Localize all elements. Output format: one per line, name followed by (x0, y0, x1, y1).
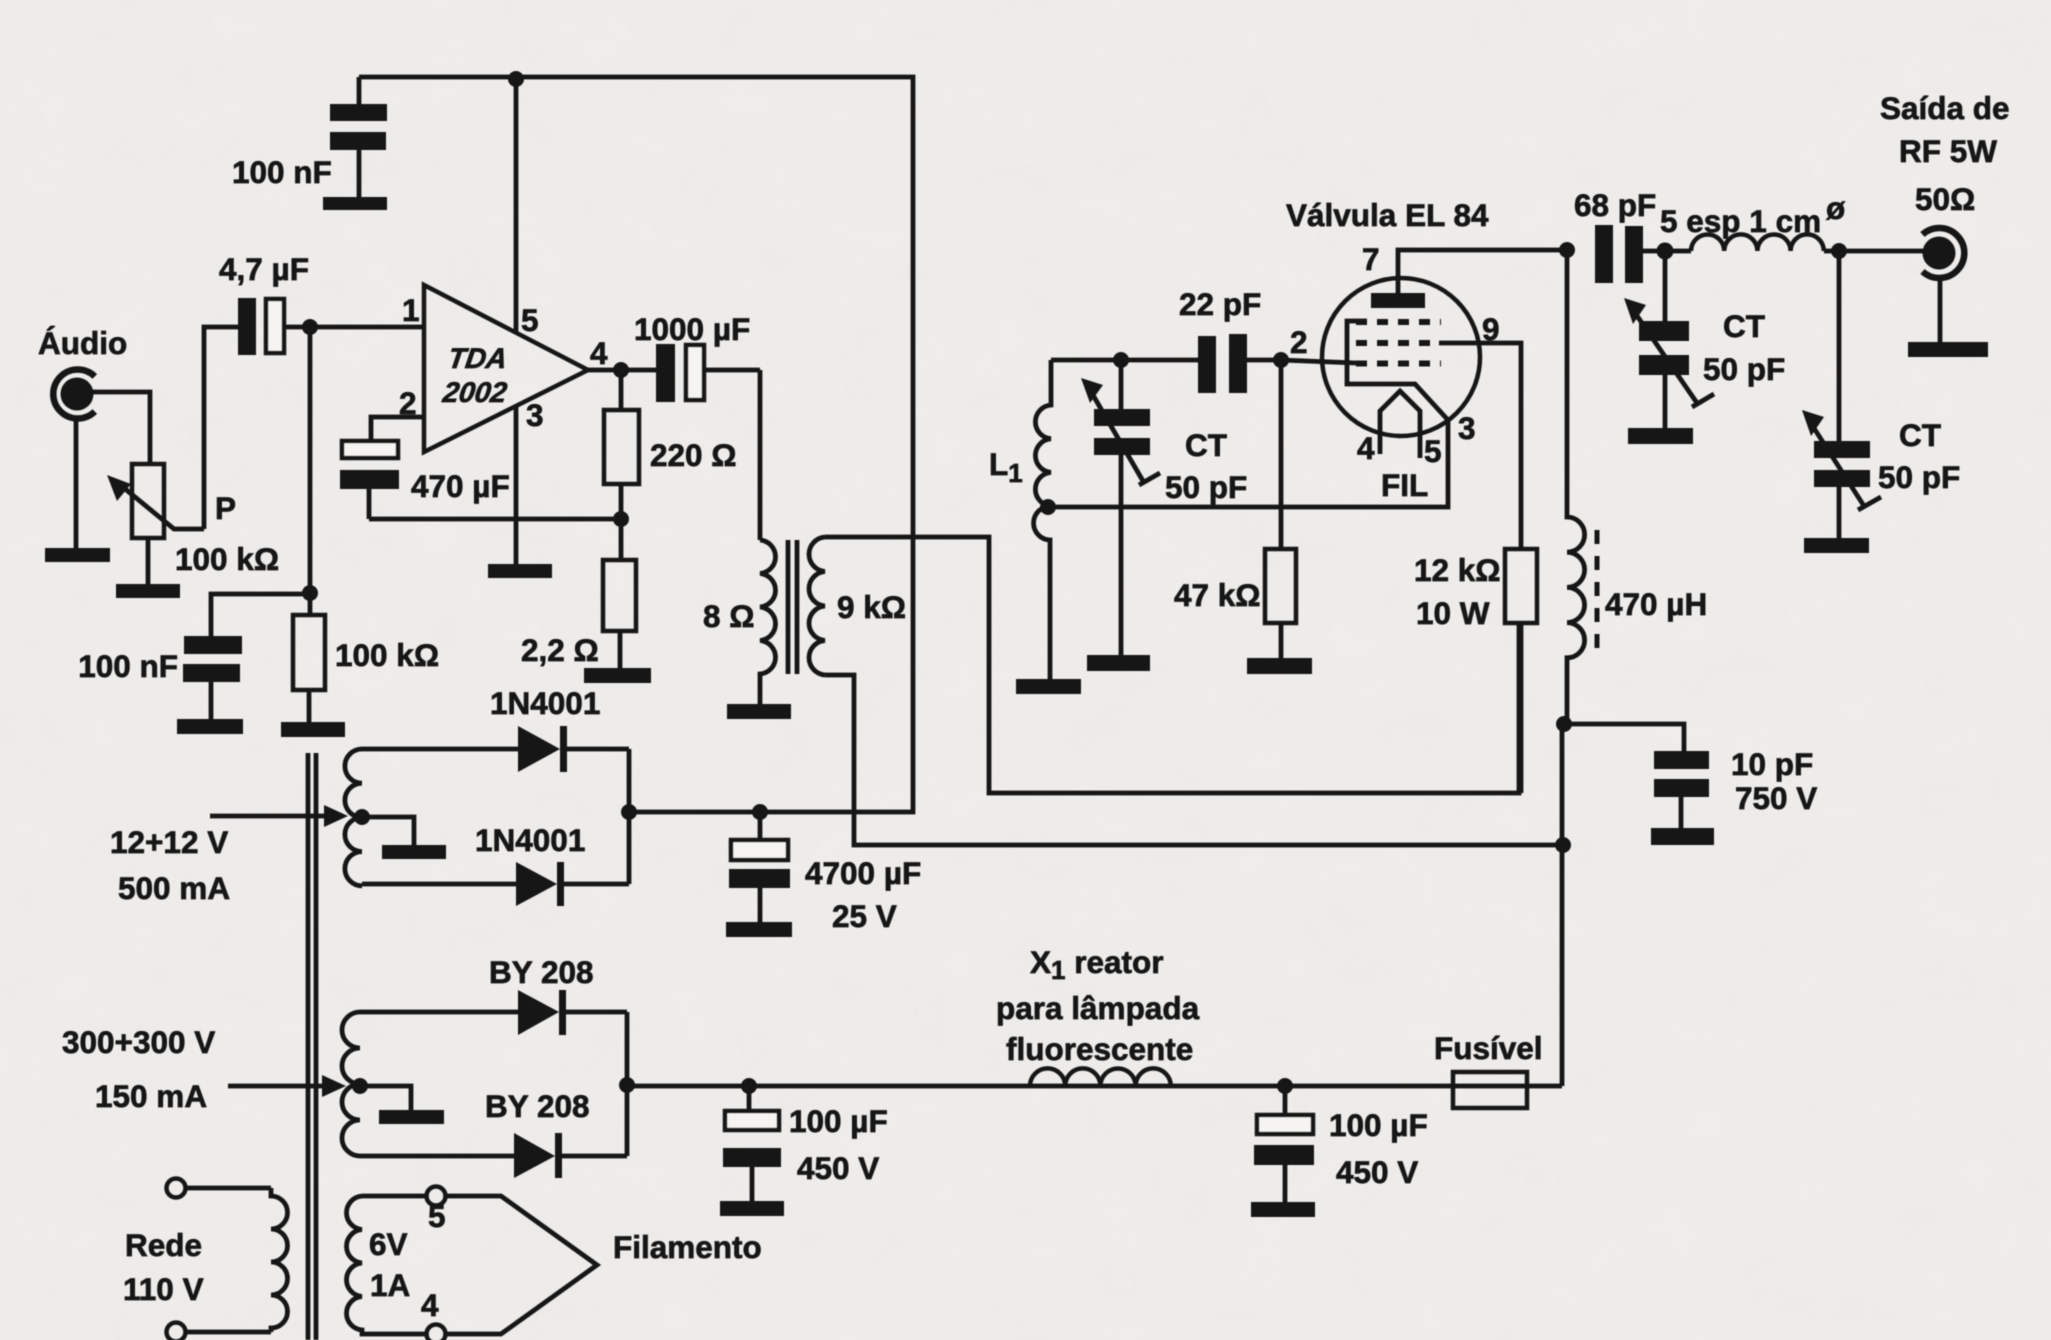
svg-text:470 µF: 470 µF (411, 468, 510, 504)
node CT1 top (1113, 352, 1129, 368)
wire cathode tap line (1048, 321, 1448, 507)
wire B+ line (627, 1084, 1453, 1089)
svg-text:110 V: 110 V (123, 1271, 204, 1307)
connector mains terminal bottom (167, 1323, 186, 1340)
label CT1 (1165, 427, 1247, 505)
value BY208 bottom (485, 1088, 590, 1124)
wire pin7 anode (1398, 250, 1567, 293)
pin 4 tube (1357, 430, 1375, 466)
label 5 esp 1 cm (1660, 190, 1846, 239)
svg-text:47 kΩ: 47 kΩ (1174, 577, 1261, 613)
value 47k (1174, 577, 1261, 613)
svg-text:6V: 6V (369, 1226, 408, 1262)
svg-text:300+300 V: 300+300 V (62, 1024, 215, 1060)
connector filament terminal 5 (427, 1187, 446, 1206)
wire 1000uF to T1 primary (758, 370, 763, 540)
svg-text:BY 208: BY 208 (485, 1088, 590, 1124)
svg-text:10 W: 10 W (1416, 595, 1490, 631)
ground 100uF second (1251, 1202, 1315, 1217)
value 8 ohm (703, 598, 755, 634)
potentiometer P 100k (132, 464, 164, 538)
svg-text:12+12 V: 12+12 V (110, 824, 228, 860)
grid g2 dashes (1356, 340, 1439, 346)
label CT3 (1878, 417, 1960, 495)
svg-text:68 pF: 68 pF (1574, 187, 1656, 223)
value 4700uF (805, 855, 921, 934)
svg-text:25 V: 25 V (832, 898, 897, 934)
wire jack to pot (90, 392, 150, 464)
wire input bias vertical (308, 327, 313, 615)
ground 47k (1247, 658, 1312, 674)
node 12V output (621, 804, 637, 820)
svg-text:150 mA: 150 mA (95, 1078, 207, 1114)
core T2 (308, 753, 316, 1340)
wire 300V center tap feed arrow (228, 1075, 346, 1097)
svg-text:1: 1 (402, 292, 420, 328)
label Saida de RF 5W 50ohm (1880, 90, 2010, 217)
wire wiper to C1 (204, 327, 238, 529)
svg-text:1N4001: 1N4001 (490, 685, 600, 721)
diode D2 1N4001 (516, 862, 629, 906)
node 300V center tap (352, 1078, 368, 1094)
resistor 100k input (293, 615, 325, 722)
capacitor 100uF 450V second (1254, 1086, 1314, 1202)
svg-text:3: 3 (526, 397, 544, 433)
capacitor 10pF 750V (1654, 751, 1709, 828)
value 470uF (411, 468, 510, 504)
svg-text:9: 9 (1482, 311, 1500, 347)
svg-text:4,7 µF: 4,7 µF (219, 251, 309, 287)
node 68pF out (1657, 243, 1674, 260)
wire 100nF to rail (357, 77, 362, 104)
value 100uF first (789, 1103, 888, 1186)
wire jack ground (74, 416, 79, 548)
coil L1 with tap (1034, 360, 1051, 679)
node anode junction (1559, 242, 1575, 258)
resistor 220 (604, 370, 639, 519)
diode D4 BY208 (514, 1133, 627, 1178)
ground 300V center tap (379, 1110, 444, 1124)
ground CT2 (1628, 428, 1693, 444)
svg-text:100 kΩ: 100 kΩ (175, 541, 279, 577)
svg-text:5 esp 1 cm: 5 esp 1 cm (1660, 203, 1821, 239)
tube V1 EL84 envelope (1322, 278, 1480, 436)
wire D1 D2 cathode column (627, 749, 632, 884)
svg-text:Válvula EL 84: Válvula EL 84 (1286, 197, 1489, 233)
svg-text:10 pF: 10 pF (1731, 746, 1813, 782)
svg-text:5: 5 (428, 1198, 446, 1234)
svg-text:4: 4 (421, 1287, 439, 1323)
wire pot ground (146, 538, 151, 584)
label FIL (1381, 467, 1428, 503)
wire 300V center tap ground (360, 1086, 411, 1110)
resistor 2,2 (603, 519, 636, 668)
svg-text:4: 4 (1357, 430, 1375, 466)
ground L1 (1016, 679, 1081, 694)
value 12k 10W (1414, 552, 1501, 631)
wire 300V top to D3 (360, 1010, 518, 1015)
diode D3 BY208 (518, 990, 627, 1035)
wire center tap to ground (362, 817, 414, 845)
svg-text:100 µF: 100 µF (1329, 1107, 1428, 1143)
value 220 (650, 437, 737, 473)
svg-text:Rede: Rede (125, 1227, 202, 1263)
value BY208 top (489, 954, 594, 990)
value 1N4001 top (490, 685, 600, 721)
ground CT3 (1804, 538, 1869, 553)
svg-text:CT: CT (1899, 417, 1941, 453)
wire 300V bottom to D4 (360, 1154, 514, 1159)
value 9k (837, 589, 906, 625)
node B+ to mod transformer (1555, 837, 1571, 853)
wire pin9 screen (1439, 343, 1521, 549)
label Audio (38, 325, 127, 361)
capacitor 100uF 450V first (723, 1086, 781, 1201)
svg-text:50 pF: 50 pF (1703, 351, 1785, 387)
resistor 47k grid leak (1265, 360, 1296, 658)
wire mains bottom (186, 1330, 271, 1335)
ground 100k input (281, 722, 345, 737)
label Filamento (613, 1229, 762, 1265)
capacitor 100nF input (183, 636, 242, 719)
svg-text:50 pF: 50 pF (1165, 469, 1247, 505)
node 100uF first (741, 1078, 757, 1094)
transformer T2 secondary 300+300V (342, 1012, 360, 1156)
ground 4700uF (726, 922, 792, 937)
svg-text:4700 µF: 4700 µF (805, 855, 921, 891)
wire to pin1 (310, 325, 424, 330)
pin 3 tube (1458, 410, 1476, 446)
svg-text:100 µF: 100 µF (789, 1103, 888, 1139)
wiper arrow P (107, 475, 204, 529)
svg-text:5: 5 (521, 302, 539, 338)
capacitor 1000uF output (656, 344, 760, 402)
wire RF output ground (1938, 277, 1943, 342)
node grid (1273, 352, 1289, 368)
svg-text:ø: ø (1826, 190, 1846, 226)
connector Audio input jack (53, 370, 95, 419)
value 4,7uF (219, 251, 309, 287)
core T1 (788, 540, 797, 674)
grid g1 dashes (1356, 361, 1441, 367)
svg-text:2,2 Ω: 2,2 Ω (521, 632, 599, 668)
wire 12V top to D1 (362, 747, 518, 752)
svg-text:3: 3 (1458, 410, 1476, 446)
node 100uF second (1277, 1078, 1293, 1094)
transformer T1 secondary 9k (809, 537, 825, 675)
svg-text:50Ω: 50Ω (1915, 181, 1975, 217)
node 12V rail to 4700uF (752, 804, 768, 820)
wire T1 sec top to screen feed (825, 537, 1519, 793)
svg-text:100 nF: 100 nF (78, 648, 178, 684)
pin 7 (1362, 241, 1380, 277)
svg-text:FIL: FIL (1381, 467, 1428, 503)
svg-text:2002: 2002 (440, 377, 509, 409)
svg-text:TDA: TDA (446, 343, 509, 375)
svg-text:4: 4 (590, 335, 608, 371)
label Fusivel (1434, 1030, 1543, 1066)
value 100uF second (1329, 1107, 1428, 1190)
capacitor 4700uF (729, 812, 790, 922)
svg-text:1A: 1A (370, 1267, 410, 1303)
pin 3 (526, 397, 544, 433)
svg-text:9 kΩ: 9 kΩ (837, 589, 906, 625)
wire D3 D4 cathode column (625, 1012, 630, 1156)
core choke dashed (1595, 530, 1600, 651)
label 12+12V 500mA (110, 824, 230, 906)
capacitor 68pF output (1595, 225, 1691, 283)
wire L1 top to grid cap (1051, 358, 1198, 363)
coil 5 esp 1cm (1691, 234, 1924, 251)
svg-text:Saída de: Saída de (1880, 90, 2010, 126)
pin 2 tube (1290, 324, 1308, 360)
node feedback (613, 511, 629, 527)
wire pin2 to 470uF (371, 417, 424, 441)
value 1N4001 bottom (475, 822, 585, 858)
svg-text:P: P (215, 490, 236, 526)
pin 9 (1482, 311, 1500, 347)
grid g3 dashes (1356, 319, 1441, 325)
pin 4 filament (421, 1287, 439, 1323)
wire V+ top rail from 100nF down right side to 12V rail (359, 77, 913, 812)
ground CT1 (1087, 655, 1150, 671)
value 68pF (1574, 187, 1656, 223)
svg-text:Filamento: Filamento (613, 1229, 762, 1265)
node top rail junction (508, 71, 524, 87)
transformer T2 primary Rede 110V (271, 1188, 288, 1332)
pin 1 (402, 292, 420, 328)
op-amp U1 TDA2002 (424, 285, 588, 452)
label Valvula EL84 (1286, 197, 1489, 233)
svg-text:fluorescente: fluorescente (1006, 1031, 1193, 1067)
wire pin4 out (588, 368, 656, 373)
svg-text:para lâmpada: para lâmpada (996, 990, 1200, 1026)
ground RF output (1908, 342, 1988, 357)
wire pin3 ground (514, 406, 519, 564)
node choke bottom (1556, 716, 1572, 732)
value 100k input (335, 637, 439, 673)
svg-text:22 pF: 22 pF (1179, 286, 1261, 322)
pin 4 (590, 335, 608, 371)
trimmer CT2 50pF (1624, 251, 1714, 428)
ground 10pF (1651, 828, 1714, 845)
wire 6V top (362, 1194, 427, 1199)
node antenna tap (1831, 243, 1847, 259)
connector mains terminal top (167, 1179, 186, 1198)
trimmer CT1 50pF (1081, 360, 1160, 655)
value pot 100k (175, 541, 279, 577)
svg-text:750 V: 750 V (1735, 780, 1817, 816)
connector RF output (1923, 228, 1965, 278)
ground 2,2 (584, 668, 651, 683)
fuse Fusivel (1453, 1072, 1562, 1108)
value 10pF 750V (1731, 746, 1817, 816)
svg-text:1000 µF: 1000 µF (634, 311, 750, 347)
wire B+ riser (1560, 724, 1565, 1086)
svg-text:470 µH: 470 µH (1605, 586, 1707, 622)
svg-text:12 kΩ: 12 kΩ (1414, 552, 1501, 588)
transformer T1 primary 8 ohm (760, 540, 776, 704)
wire 12V bottom to D2 (362, 882, 516, 887)
svg-text:8 Ω: 8 Ω (703, 598, 755, 634)
node 12V center tap (354, 809, 370, 825)
node bias (302, 585, 318, 601)
trimmer CT3 50pF (1802, 251, 1881, 538)
svg-text:Fusível: Fusível (1434, 1030, 1543, 1066)
svg-text:100 nF: 100 nF (232, 154, 332, 190)
svg-text:220 Ω: 220 Ω (650, 437, 737, 473)
svg-text:100 kΩ: 100 kΩ (335, 637, 439, 673)
pin 5 tube (1424, 433, 1442, 469)
svg-text:1N4001: 1N4001 (475, 822, 585, 858)
svg-text:BY 208: BY 208 (489, 954, 594, 990)
capacitor 100nF supply bypass (330, 104, 387, 197)
svg-text:50 pF: 50 pF (1878, 459, 1960, 495)
svg-text:2: 2 (1290, 324, 1308, 360)
svg-text:CT: CT (1185, 427, 1227, 463)
ground 100uF first (720, 1201, 784, 1216)
svg-text:450 V: 450 V (1336, 1154, 1418, 1190)
wire grid to tube pin2 (1281, 360, 1356, 363)
wire filament chevron (446, 1196, 597, 1334)
wire branch to 100nF input filter (211, 594, 310, 636)
inductor X1 reator (1030, 1068, 1171, 1086)
transformer T2 secondary 12+12V (345, 749, 362, 886)
pin 2 (399, 385, 417, 421)
value 100nF (232, 154, 332, 190)
svg-text:7: 7 (1362, 241, 1380, 277)
value 22pF (1179, 286, 1261, 322)
capacitor 22pF grid (1198, 334, 1281, 393)
heater filament tent (1380, 391, 1420, 458)
ground pot (116, 584, 180, 598)
svg-text:500 mA: 500 mA (118, 870, 230, 906)
anode plate EL84 (1371, 293, 1425, 308)
svg-text:RF 5W: RF 5W (1899, 133, 1997, 169)
label Rede 110V (123, 1227, 204, 1307)
svg-text:5: 5 (1424, 433, 1442, 469)
wire 470uF return (369, 517, 621, 522)
node pin4 (613, 362, 629, 378)
value 470uH (1605, 586, 1707, 622)
svg-text:Áudio: Áudio (38, 325, 127, 361)
svg-text:CT: CT (1723, 308, 1765, 344)
wire mains top (186, 1186, 271, 1191)
svg-text:450 V: 450 V (797, 1150, 879, 1186)
wire pin5 supply (514, 77, 519, 333)
ground 100nF input (177, 719, 243, 734)
ground jack (45, 548, 110, 562)
label P (215, 490, 236, 526)
node L1 tap (1040, 499, 1056, 515)
connector filament terminal 4 (427, 1325, 446, 1340)
value 6V 1A (369, 1226, 410, 1303)
value 2,2 (521, 632, 599, 668)
pin 5 (521, 302, 539, 338)
node C1 out (302, 319, 318, 335)
ground 100nF (323, 197, 387, 210)
wire 12V center tap feed arrow (210, 805, 348, 827)
label 300+300V 150mA (62, 1024, 215, 1114)
label L1 (989, 446, 1023, 488)
pin 5 filament (428, 1198, 446, 1234)
ground T1 primary (727, 704, 791, 719)
ground pin3 (488, 564, 552, 578)
svg-text:X1 reator: X1 reator (1030, 944, 1164, 985)
transformer T2 secondary 6V (346, 1196, 427, 1334)
resistor 12k screen (1505, 549, 1537, 793)
capacitor 470uF feedback (340, 441, 399, 519)
value 1000uF (634, 311, 750, 347)
capacitor 4,7uF coupling (238, 298, 310, 355)
node 300V output (619, 1077, 635, 1093)
value 100nF input (78, 648, 178, 684)
wire T1 sec bottom to B+ (825, 675, 1564, 845)
label X1 reator (996, 944, 1200, 1067)
ground 12V center tap (382, 845, 446, 859)
wire to 10pF (1564, 724, 1684, 751)
diode D1 1N4001 (518, 726, 629, 772)
choke 470uH (1567, 250, 1585, 724)
label CT2 (1703, 308, 1785, 387)
